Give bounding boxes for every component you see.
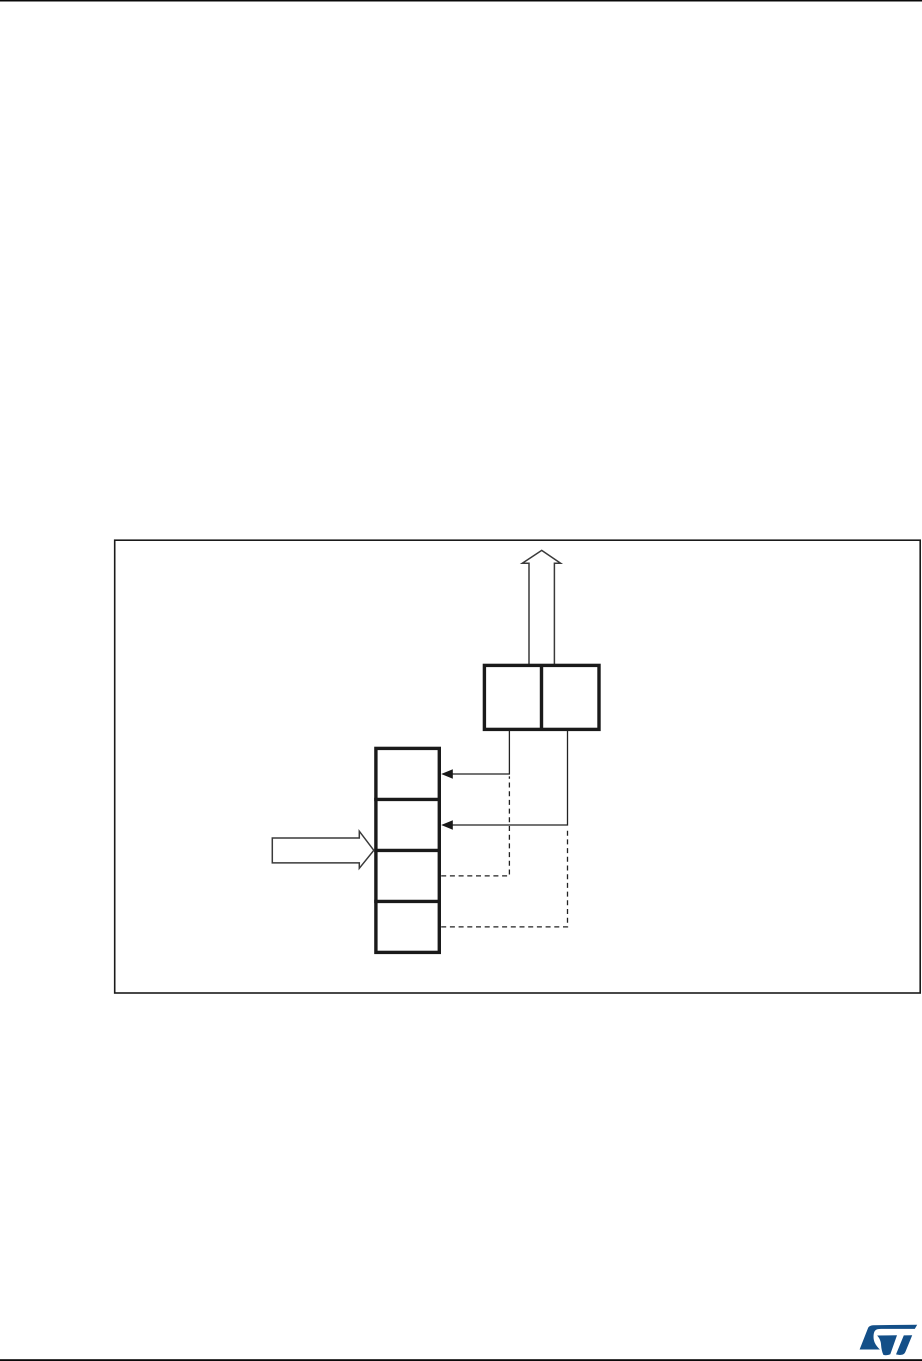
arrowhead 2 xyxy=(441,820,453,830)
solid connector 2 (right cell to stack box 2) xyxy=(452,731,567,826)
logo S lower wedge xyxy=(877,1335,897,1355)
double box divider xyxy=(540,665,543,729)
header rule xyxy=(0,0,922,2)
solid connector 1 (left cell to stack box 1) xyxy=(452,731,509,775)
double box (two cells) xyxy=(484,665,599,729)
stack divider 2 xyxy=(374,849,441,852)
stack divider 1 xyxy=(374,798,441,801)
big up arrow (outline) xyxy=(522,550,560,665)
big right arrow (outline) into stack xyxy=(272,831,374,868)
figure frame xyxy=(115,540,921,993)
footer rule xyxy=(0,1359,922,1361)
stack divider 3 xyxy=(374,900,441,903)
logo swoosh S upper + top bar xyxy=(860,1325,918,1350)
logo T stem xyxy=(896,1335,912,1355)
ST logo xyxy=(860,1325,918,1355)
dashed connector 1 (stack box 3 up to connector 1) xyxy=(441,776,509,876)
dashed connector 2 (stack box 4 up to connector 2) xyxy=(441,827,567,927)
arrowhead 1 xyxy=(441,769,453,779)
stack of 4 boxes xyxy=(376,748,439,952)
